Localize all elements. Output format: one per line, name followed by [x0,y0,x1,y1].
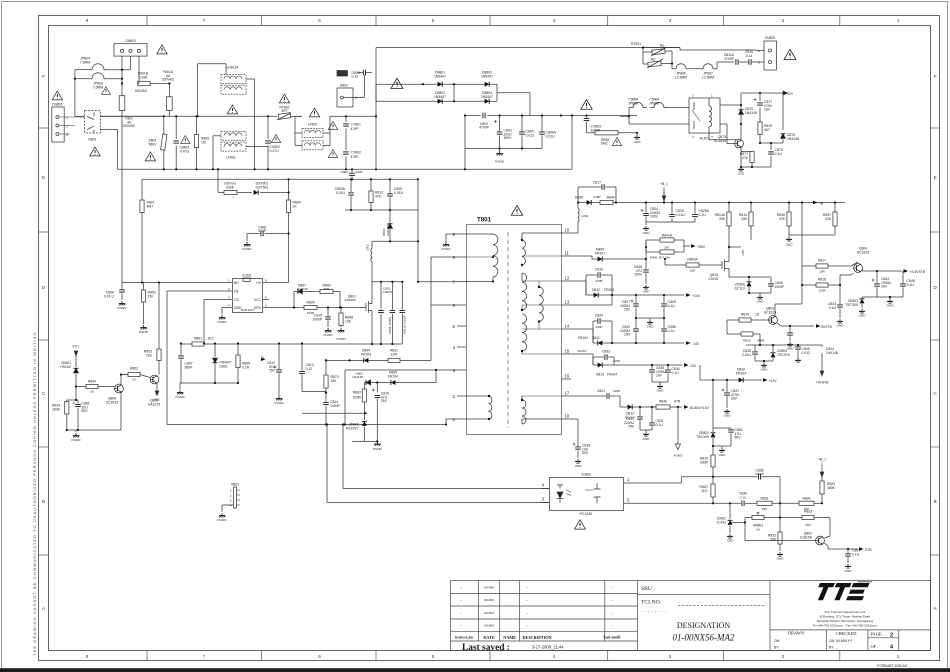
svg-text:+14V: +14V [692,294,701,298]
svg-text:1: 1 [711,94,713,98]
pin 18 [562,418,571,420]
svg-text:9: 9 [453,232,456,237]
capacitor C861 10U 50V [67,399,78,401]
svg-text:STB: STB [865,548,872,552]
svg-text:1K: 1K [293,204,298,208]
svg-text:--: -- [611,611,613,615]
capacitor C849 0.012 [797,345,799,346]
capacitor C817 330P [577,187,579,203]
resistor R803 22K [143,283,145,291]
svg-text:C820: C820 [595,314,603,318]
wire 12V rail [720,104,741,106]
svg-text:B: B [934,499,937,504]
svg-text:25V: 25V [731,397,738,401]
diode D813 FR104 [571,353,593,355]
jumper JP803 [88,73,122,79]
svg-text:PGND: PGND [72,438,82,442]
capacitor D811A 4700P [736,59,738,65]
wire T801 pin3 run [302,257,457,441]
capacitor C815 1000P [327,308,329,317]
svg-text:R862: R862 [353,391,361,395]
svg-text:GND: GND [777,557,785,561]
svg-text:0.1U: 0.1U [668,304,676,308]
svg-text:NAME: NAME [503,635,516,640]
bottom black bar [0,668,950,672]
svg-text:R846: R846 [659,400,667,404]
svg-text:2K2: 2K2 [208,337,214,341]
svg-text:1: 1 [627,477,630,482]
svg-text:+B_1: +B_1 [818,458,826,462]
svg-text:PGND: PGND [324,333,334,337]
value labels [52,170,406,522]
svg-text:-25V: -25V [741,249,745,256]
svg-text:330K: 330K [226,185,235,189]
bottom bus [117,168,572,170]
svg-text:0.1U: 0.1U [740,495,747,499]
resistor R817 10R [802,265,816,267]
svg-text:R839: R839 [306,301,314,305]
STB output [828,548,858,550]
svg-text:R816: R816 [743,339,751,343]
warning triangle CY803 [581,100,592,110]
wire [74,70,76,117]
shunt reg IC802 TL431 [729,503,731,519]
svg-text:4K7: 4K7 [764,128,770,132]
svg-text:2: 2 [782,18,785,23]
long fb wires to optocoupler [342,425,344,489]
value labels [696,368,746,465]
capacitor C811A 1000P [401,282,403,310]
wire [75,115,85,117]
svg-text:00-MM: 00-MM [484,624,494,628]
svg-text:R84C: R84C [607,196,616,200]
svg-text:--: -- [460,611,462,615]
svg-text:R841A: R841A [662,234,673,238]
svg-text:R851: R851 [194,337,202,341]
capacitor C810 [749,59,751,65]
svg-text:16V: 16V [881,285,888,289]
svg-text:1: 1 [897,654,900,659]
svg-text:GND: GND [837,324,845,328]
svg-text:CN802: CN802 [765,36,776,40]
svg-text:GND: GND [787,347,795,351]
line filter LF802 [302,128,323,137]
svg-text:25V: 25V [269,369,276,373]
resistor R814 33K [750,203,752,213]
svg-text:C808 1000P: C808 1000P [388,317,392,334]
svg-text:IC803: IC803 [581,473,590,477]
svg-text:FR107: FR107 [595,251,605,255]
svg-text:GST501: GST501 [256,185,269,189]
resistor R862 220R [363,383,365,390]
svg-text:5VSTB: 5VSTB [821,325,832,329]
svg-text:PC123X: PC123X [580,512,593,516]
pin18 to C816 [571,418,578,420]
svg-text:VCC: VCC [154,398,161,402]
thermistor RT801 Rg [643,51,652,53]
optocoupler IC803 PC123X [550,478,624,511]
svg-text:0.01 U: 0.01 U [104,294,115,298]
svg-text:FR104: FR104 [578,336,588,340]
svg-text:JP808: JP808 [628,101,638,105]
svg-text:PGND: PGND [275,401,285,405]
svg-text:1N4148: 1N4148 [352,375,363,379]
diode D814 1N4148 [821,345,823,347]
svg-text:R833: R833 [804,510,812,514]
resistor R832 39K [779,503,781,532]
svg-text:220P: 220P [356,170,363,174]
svg-text:1N4148: 1N4148 [745,111,757,115]
primary winding W2 aux [466,395,489,397]
AC labels [52,39,361,160]
svg-text:B Building, TCL Tower, Nanhai: B Building, TCL Tower, Nanhai Road [820,615,870,619]
svg-text:22K: 22K [825,217,832,221]
resistor R852 10K [124,374,129,376]
svg-text:PGND: PGND [495,160,505,164]
svg-text:0.1U: 0.1U [907,283,915,287]
secondary winding W5 [522,314,527,351]
svg-text:0.12: 0.12 [306,367,313,371]
svg-text:8: 8 [86,654,89,659]
svg-text:12: 12 [565,276,570,281]
svg-text:L804: L804 [582,214,589,218]
svg-text:E803: E803 [340,83,348,87]
svg-text:--: -- [526,611,528,615]
resistor R831 15K [757,501,772,505]
svg-text:00-MM: 00-MM [484,586,494,590]
svg-text:VCC: VCC [254,298,262,302]
CS wire [225,299,227,301]
resistor R829 180K [821,494,823,503]
jumper JP807 [690,64,717,69]
diode D802 FR4007 [214,344,216,358]
svg-text:120R: 120R [818,289,826,293]
svg-text:2: 2 [692,94,694,98]
svg-text:25V: 25V [624,333,631,337]
svg-text:PGND: PGND [176,395,186,399]
pin 12 [562,280,571,282]
svg-text:3: 3 [669,654,672,659]
svg-text:DESCRIPTION: DESCRIPTION [523,635,552,640]
svg-text:C821: C821 [597,389,605,393]
wire [447,83,480,85]
capacitor C832 2200U 25V [639,407,641,416]
diode D870 1N4148 [740,105,742,119]
svg-text:TSC3V9: TSC3V9 [696,435,709,439]
svg-text:FR104: FR104 [607,373,617,377]
capacitor C831 0.1U [651,407,653,422]
svg-text:IC801: IC801 [242,274,251,278]
svg-text:SC1815: SC1815 [764,310,776,314]
svg-text:--: -- [460,624,462,628]
component D823 [337,71,348,77]
audio rail pin17 [571,395,606,397]
svg-text:0.1U: 0.1U [699,213,707,217]
pin 6 [457,304,466,306]
DRV network: diode D807 [294,291,297,293]
AGND tap [677,407,679,444]
value labels [542,458,861,574]
svg-text:12V: 12V [787,92,794,96]
svg-text:0.47U: 0.47U [270,149,280,153]
transformer body T801 [467,225,562,435]
svg-text:3.15A: 3.15A [139,75,149,79]
svg-text:R841 2K7 2W: R841 2K7 2W [650,255,669,259]
svg-text:10R: 10R [690,269,696,273]
wire [100,129,117,131]
resistor R801 4M7 [141,179,143,200]
svg-text:Last modif: Last modif [603,636,621,640]
svg-text:--: -- [526,598,528,602]
pgnd bus left [67,429,121,431]
svg-text:7: 7 [203,654,206,659]
pgnd bus 2 [180,382,238,384]
svg-text:R831: R831 [760,497,768,501]
svg-text:5: 5 [265,304,267,308]
resistor R816 390R [726,320,728,334]
capacitor C824 1000U 160V [645,203,647,213]
capacitor C802 4700P series [481,112,487,118]
+3.3VSTB rail [862,270,902,272]
wire [59,116,85,118]
svg-text:1N4148: 1N4148 [297,287,308,291]
capacitor C862 220P between buses [351,169,353,172]
capacitor C858 0.1U [663,318,665,328]
+5VSTB diode group bus [746,344,822,346]
svg-text:C: C [934,391,938,396]
value labels [741,247,915,385]
wire [643,47,680,49]
varistor Z801 [163,116,165,169]
svg-text:2K7: 2K7 [664,246,670,250]
svg-text:2: 2 [66,125,68,129]
capacitor C804A [541,116,543,132]
svg-text:0.012: 0.012 [802,351,811,355]
resistor R844 1K [76,386,84,388]
wire [629,123,689,125]
wire BO bus [122,282,226,284]
inductor L802 [371,248,372,262]
svg-text:12.5MM: 12.5MM [702,75,714,79]
svg-text:LF802: LF802 [308,122,318,126]
svg-text:0.1U: 0.1U [775,152,783,156]
svg-text:4: 4 [692,135,694,139]
capacitor C827 1000U 25V [635,295,637,303]
svg-text:4: 4 [453,345,456,350]
capacitor C811 1000P [380,282,382,310]
svg-text:220P: 220P [595,325,602,329]
relay RL871 [689,98,720,133]
svg-text:Rg: Rg [660,44,664,48]
svg-text:- - - - - - - -: - - - - - - - - [641,609,667,614]
capacitor C825A 0.1U [694,203,696,214]
svg-text:GN2: GN2 [738,172,745,176]
resistor R818 120R [802,284,816,286]
svg-text:00-MM: 00-MM [484,611,494,615]
+14V / -14V rails [571,275,684,343]
zener ZD806 HS15VC [363,413,365,420]
svg-text:25V: 25V [624,308,631,312]
svg-text:3: 3 [669,18,672,23]
svg-text:SA1015: SA1015 [148,402,160,406]
capacitor C867 0.1U [847,549,849,553]
FB wire [167,290,226,292]
svg-text:12VAC: 12VAC [577,349,587,353]
capacitor C829 1000U 25V [635,318,637,328]
svg-text:1000P: 1000P [383,290,392,294]
svg-text:1N5407: 1N5407 [434,95,446,99]
resistor R830 15K [799,501,814,505]
fuse F801B [138,83,139,85]
capacitor C830 0.1U [713,502,741,504]
pin1 riser [681,477,683,483]
svg-text:PGND: PGND [118,306,128,310]
svg-text:0.1U: 0.1U [852,552,860,556]
wire [376,83,434,85]
svg-text:GND: GND [859,314,867,318]
svg-text:1000P: 1000P [775,285,786,289]
capacitor C848 0.01U [754,345,756,351]
resistor R841 2K7 2W [646,251,660,253]
svg-text:TCLNO:: TCLNO: [641,600,662,606]
wire [59,125,75,127]
wire to rectifier [346,115,376,117]
svg-text:BO: BO [234,281,239,285]
svg-text:R852: R852 [130,367,138,371]
svg-text:PGND: PGND [373,447,383,451]
svg-text:47K: 47K [375,194,382,198]
capacitor C816 47U 25V [376,383,378,393]
svg-text:220P: 220P [613,389,620,393]
svg-text:VB01: VB01 [231,483,239,487]
svg-text:GAD: GAD [234,306,242,310]
svg-text:2: 2 [228,287,230,291]
svg-text:160V: 160V [650,215,659,219]
svg-text:14: 14 [565,324,570,329]
svg-text:SBU :: SBU : [641,586,655,592]
diode D808 [578,202,587,204]
svg-text:0.1U: 0.1U [656,423,664,427]
svg-text:3: 3 [228,296,230,300]
svg-text:0.012: 0.012 [526,133,535,137]
svg-text:D802: D802 [220,364,228,368]
svg-text:+B: +B [819,202,824,206]
svg-text:C811A 1000P: C811A 1000P [402,315,406,334]
svg-text:50V: 50V [582,451,589,455]
resistor R840 30R [320,289,333,293]
value labels [628,36,799,176]
svg-text:1000P: 1000P [330,404,341,408]
wire [116,130,118,170]
resistor R870 15K [325,360,327,375]
svg-text:17: 17 [565,391,570,396]
wire [75,69,88,71]
connector CN802 [764,41,777,70]
svg-text:4700P: 4700P [724,57,735,61]
resistor R841A 2K7 [645,247,647,259]
warning triangles AC section [157,45,167,54]
junction dots AC [74,69,377,171]
snubber top rail [372,240,418,242]
svg-text:1K: 1K [90,390,95,394]
main bus mid [100,115,277,117]
zener ZD803 TSC3V9 [862,296,877,298]
resistor R836 22K [788,203,790,213]
svg-text:PGND: PGND [337,337,347,341]
value labels [575,181,832,247]
pin 16 [562,378,571,380]
svg-text:1N4148: 1N4148 [826,351,838,355]
svg-text:THE DRAWING CANNOT BE COMMUNIC: THE DRAWING CANNOT BE COMMUNICATED TO UN… [32,331,37,656]
line filter LF801 [212,136,214,170]
svg-text:6: 6 [453,303,456,308]
resistor R853 2K2 [158,283,160,350]
pin 3 [457,369,466,371]
svg-text:560P: 560P [185,365,194,369]
capacitor C803 220U 450V [499,116,501,132]
svg-text:GND: GND [719,453,727,457]
svg-text:1N5407: 1N5407 [481,95,493,99]
svg-text:SC11V: SC11V [735,286,746,290]
pin 15 [562,353,571,355]
svg-text:64N60C: 64N60C [345,298,357,302]
svg-text:25V: 25V [381,399,388,403]
pot VR801 1K [730,522,745,524]
wire [100,115,163,117]
svg-text:..: .. [508,587,510,591]
svg-text:GND: GND [634,140,642,144]
svg-text:2200P: 2200P [591,128,602,132]
svg-text:1: 1 [228,279,230,283]
svg-text:PGND: PGND [218,320,228,324]
svg-text:0.12: 0.12 [746,54,753,58]
svg-text:D813: D813 [596,373,604,377]
pin 17 [562,395,571,397]
svg-text:7SC3V9: 7SC3V9 [777,353,790,357]
svg-text:3: 3 [542,497,545,502]
svg-text:15K: 15K [331,379,338,383]
svg-text:GND: GND [643,231,651,235]
svg-text:RT801: RT801 [631,42,641,46]
svg-text:3: 3 [230,499,232,503]
svg-text:01-00NX56-MA2: 01-00NX56-MA2 [673,633,735,643]
mid gnd bus [636,317,664,319]
svg-text:470P: 470P [351,155,360,159]
svg-text:4: 4 [228,304,230,308]
svg-text:180K: 180K [827,486,836,490]
svg-text:GND: GND [786,243,794,247]
svg-text:GND: GND [724,414,732,418]
common-mode choke CM803 [114,44,147,56]
svg-text:0.1R: 0.1R [242,365,250,369]
svg-text:00-MM: 00-MM [484,598,494,602]
svg-text:1: 1 [453,417,456,422]
svg-text:3K3: 3K3 [805,523,811,527]
svg-text:220R: 220R [353,396,362,400]
svg-text:D810: D810 [592,288,600,292]
svg-text:2: 2 [453,394,456,399]
svg-text:CHECKED: CHECKED [836,631,857,636]
pin 11 [562,255,571,257]
svg-text:1N4148: 1N4148 [787,137,799,141]
svg-text:--: -- [460,586,462,590]
aux winding feed pin8/pin6 [431,304,457,306]
snubber diode D803 [389,210,391,223]
svg-text:A: A [42,606,46,611]
diode D8803 [480,83,497,85]
svg-text:--: -- [611,598,613,602]
svg-text:0.1U: 0.1U [829,306,837,310]
